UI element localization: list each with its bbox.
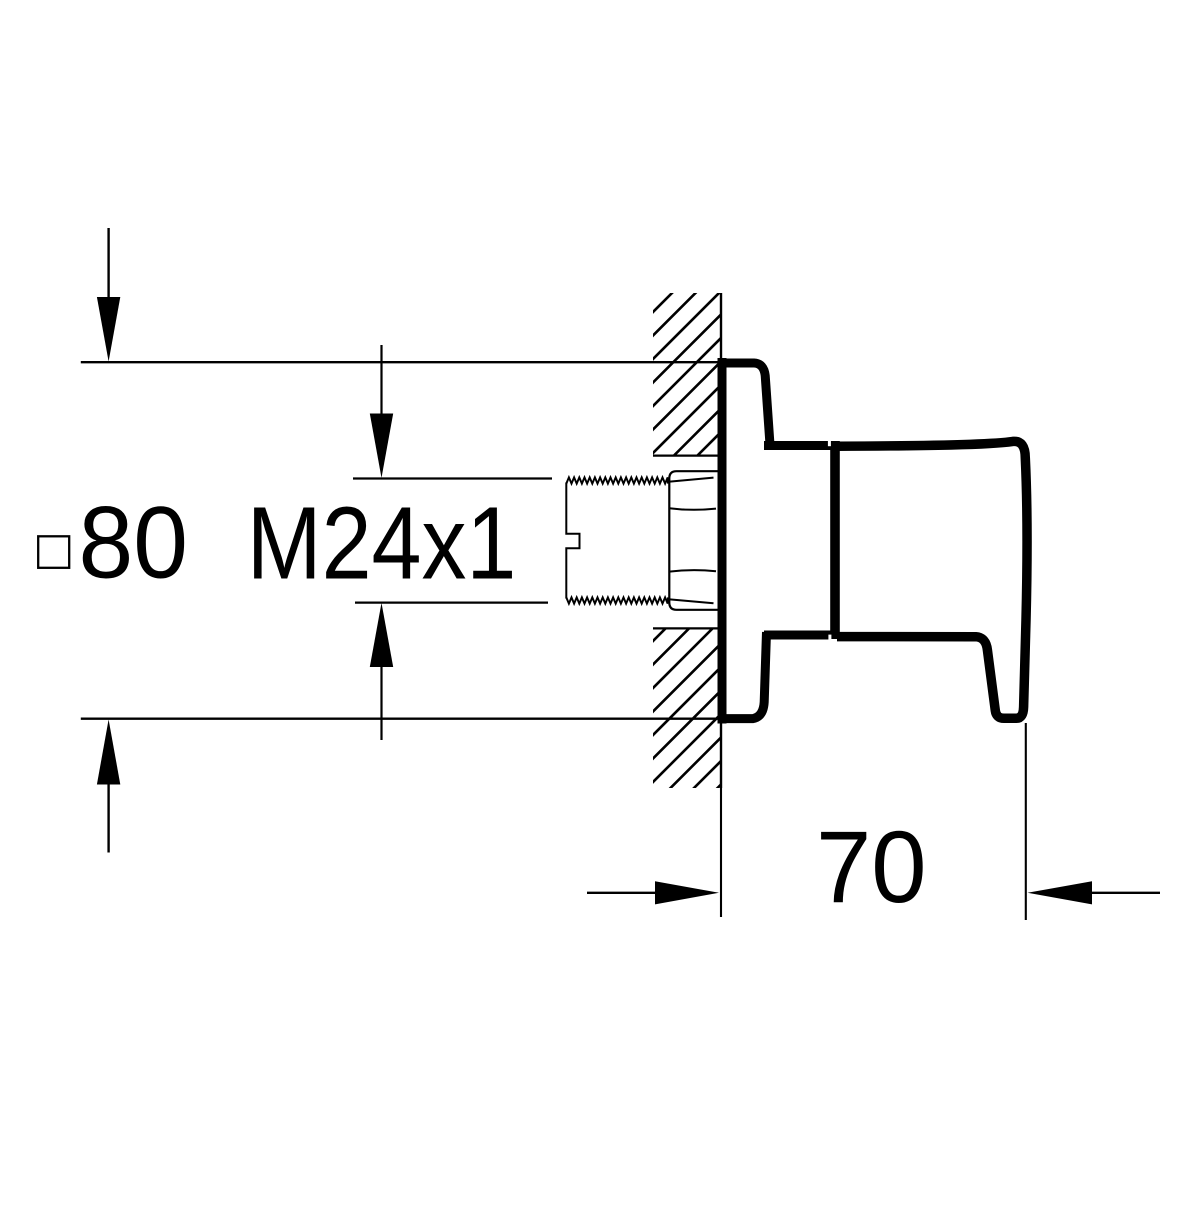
svg-text:80: 80 — [79, 486, 188, 600]
svg-text:70: 70 — [816, 811, 927, 924]
svg-text:M24x1: M24x1 — [247, 487, 517, 601]
